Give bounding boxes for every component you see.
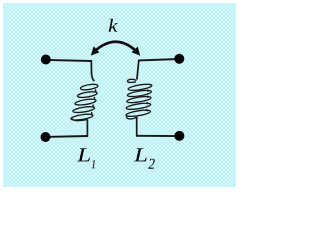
label L2 [134, 148, 147, 161]
wire right bottom lead [136, 117, 138, 136]
inductor L1 coil [71, 83, 99, 121]
coupling arrow right head [132, 47, 141, 56]
wire left top lead [91, 60, 94, 81]
terminal dot top-right [174, 54, 184, 64]
wire left bottom lead [86, 119, 88, 135]
wire bottom-left horizontal [46, 135, 89, 138]
wire top-left horizontal [46, 60, 91, 61]
coupling arrow arc [93, 42, 137, 53]
terminal dot bottom-left [41, 132, 51, 142]
wire top-right horizontal [139, 59, 180, 60]
coupling arrow left head [91, 46, 100, 55]
terminal dot bottom-right [174, 131, 184, 141]
inductor L2 coil [126, 79, 153, 119]
label k [109, 19, 118, 32]
wire right top lead [137, 60, 139, 80]
label L1 [77, 148, 90, 161]
wire bottom-right horizontal [136, 135, 179, 137]
terminal dot top-left [41, 55, 51, 65]
